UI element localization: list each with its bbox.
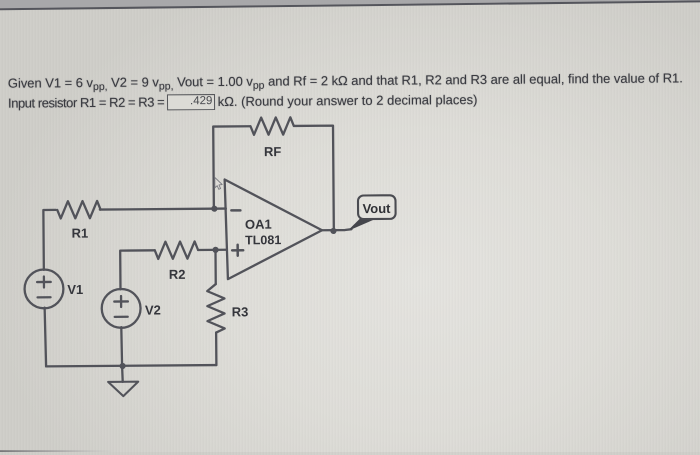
op-amp non-inverting pin + xyxy=(232,245,243,256)
wire xyxy=(198,249,226,252)
wire xyxy=(45,308,46,367)
wire xyxy=(120,250,155,289)
op-amp inverting pin - xyxy=(231,209,240,212)
node inverting input junction xyxy=(211,206,217,212)
resistor RF xyxy=(250,117,293,135)
net label Vout callout xyxy=(350,195,395,229)
wire xyxy=(214,250,217,284)
node non-inverting input junction xyxy=(212,247,218,253)
ground xyxy=(108,382,138,397)
wire xyxy=(213,126,251,208)
wire xyxy=(120,327,123,366)
resistor R1 xyxy=(57,201,100,219)
op-amp U1 xyxy=(225,179,323,279)
node output junction xyxy=(330,228,336,234)
wire xyxy=(46,365,216,366)
problem text line 1 xyxy=(8,70,683,93)
answer input box xyxy=(167,94,215,111)
wire xyxy=(100,207,226,210)
wire xyxy=(121,366,124,382)
wire xyxy=(43,210,56,270)
node ground junction xyxy=(119,363,125,369)
resistor R3 xyxy=(207,284,225,333)
wire xyxy=(215,333,218,365)
mouse cursor xyxy=(215,177,222,189)
voltage source V2 xyxy=(102,289,141,328)
resistor R2 xyxy=(155,241,198,259)
wire xyxy=(322,229,352,230)
problem text line 2 with answer box xyxy=(8,91,477,110)
voltage source V1 xyxy=(24,269,63,308)
wire xyxy=(294,126,334,231)
